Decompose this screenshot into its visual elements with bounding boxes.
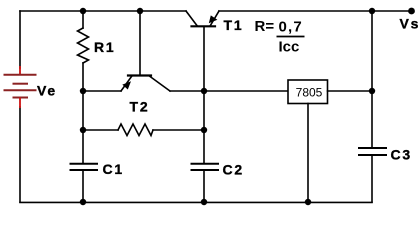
svg-text:R1: R1 [94,39,116,55]
svg-text:7805: 7805 [296,86,323,100]
wire C3 column top [371,11,373,148]
node dots [80,8,415,206]
capacitor C2 [192,164,219,170]
wire top rail left segment [20,10,186,12]
wire 7805 output [328,90,373,92]
battery Ve [4,66,37,108]
transistor T2 (PNP) [121,76,170,92]
node bottom rail / C1 [80,199,86,205]
capacitor C1 [71,164,98,170]
node R1 bottom / T2 emitter [80,88,86,94]
node top rail / R1 [80,8,86,14]
svg-text:T1: T1 [224,17,244,33]
wire left column bottom (Ve - to bottom rail) [19,107,21,202]
wire T1 base / center column [203,26,205,163]
resistor R1 [78,28,89,63]
wire left column top (Ve + to top rail) [19,11,21,68]
svg-text:C3: C3 [391,147,413,163]
wire 7805 ground pin [307,104,309,203]
capacitor C3 [359,148,386,155]
wire C1 bottom lead [82,170,84,202]
node Vs terminal [408,8,415,15]
wire horizontal resistor left lead [83,129,118,131]
node 7805 output / C3 [369,88,375,94]
wire T2 emitter to R1 node [83,90,121,92]
svg-text:Ve: Ve [37,83,57,99]
regulator U1 7805 box [288,80,328,104]
node center column / 7805 input [201,88,207,94]
node R1 column / resistor left [80,127,86,133]
node top rail / C3 column [369,8,375,14]
wire C2 bottom lead [203,170,205,202]
wire top rail right segment [219,10,412,12]
wire T2 base column [139,11,141,75]
wire C3 bottom lead [371,155,373,202]
wire R1 column middle (through nodes) [82,63,84,163]
resistor R (horizontal, unlabeled) [118,124,153,136]
wire R1 column top [82,11,84,28]
svg-text:Icc: Icc [279,39,300,56]
node bottom rail / 7805 gnd [305,199,311,205]
svg-text:C2: C2 [223,162,245,178]
svg-text:T2: T2 [130,99,150,115]
wire 7805 input [204,90,288,92]
svg-text:C1: C1 [103,161,125,177]
wire bottom ground rail [20,201,372,203]
wire T2 collector to center node [170,90,204,92]
transistor T1 (PNP) [186,11,219,26]
svg-text:0,7: 0,7 [279,19,303,36]
node top rail / T2 base [137,8,143,14]
node center column / resistor right [201,127,207,133]
node bottom rail / C2 [201,199,207,205]
wire horizontal resistor right lead [153,129,204,131]
label formula R= 0,7 / Icc [255,18,305,56]
svg-text:Vs: Vs [400,16,420,32]
svg-text:R=: R= [255,18,275,35]
